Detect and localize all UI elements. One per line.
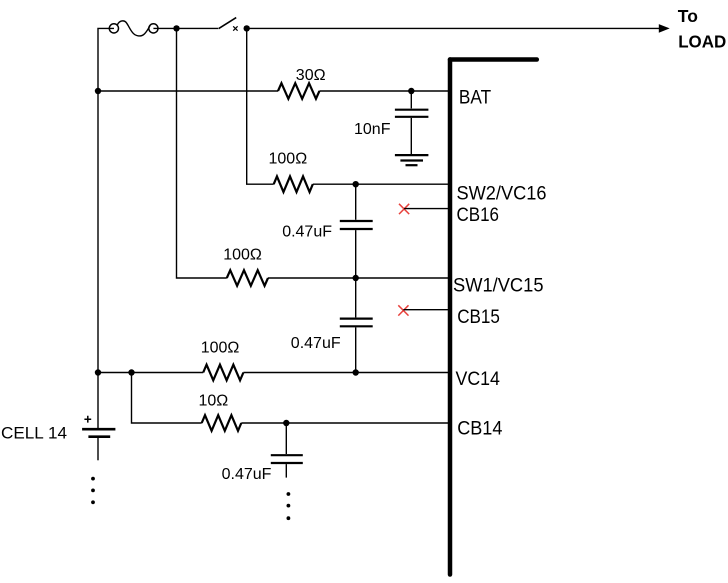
resistor 10ohm CB14 [202, 415, 242, 431]
svg-text:BAT: BAT [459, 88, 492, 109]
IC edge thick top bar [450, 57, 537, 62]
node VC14 cap tap [353, 369, 359, 375]
ground symbol [395, 154, 429, 156]
capacitor 10nF stem bottom [410, 118, 412, 154]
svg-text:100Ω: 100Ω [201, 340, 240, 357]
wire fuse to switch [153, 27, 218, 29]
svg-text:SW2/VC16: SW2/VC16 [457, 184, 547, 205]
wire VC14 row left [98, 372, 203, 374]
capacitor 0.47uF (CB14) stem top [285, 423, 287, 454]
wire SW2 row right [313, 183, 450, 185]
resistor 100ohm SW1 [227, 270, 268, 286]
capacitor 0.47uF (SW1-VC14) stem top [355, 278, 357, 317]
capacitor 0.47uF (SW2-SW1) plates [340, 221, 373, 229]
node 10nF tap [408, 88, 414, 94]
capacitor 0.47uF (SW1-VC14) stem bottom [355, 327, 357, 372]
node junction after switch [244, 25, 250, 31]
capacitor 0.47uF (SW2-SW1) stem top [355, 184, 357, 220]
battery stub below [97, 438, 99, 460]
capacitor 0.47uF (SW1-VC14) plates [340, 319, 373, 327]
wire VC14 branch down to CB14 row [132, 373, 202, 424]
node junction after fuse [173, 25, 179, 31]
svg-text:0.47uF: 0.47uF [291, 335, 341, 352]
IC edge thick vertical [448, 60, 453, 575]
wire CB15 [403, 309, 450, 311]
svg-text:30Ω: 30Ω [296, 67, 326, 84]
svg-text:LOAD: LOAD [678, 31, 726, 51]
svg-text:To: To [678, 6, 698, 26]
resistor 100ohm SW2 [274, 176, 313, 192]
wire fuse node down to SW1 row [177, 28, 227, 278]
node VC14 branch junction [128, 369, 134, 375]
node BAT bus junction [95, 88, 101, 94]
wire BAT row right [319, 90, 450, 92]
node SW2 cap tap [353, 181, 359, 187]
wire CB14 row right [241, 422, 450, 424]
resistor 100ohm VC14 [203, 365, 243, 381]
svg-text:10Ω: 10Ω [199, 393, 229, 410]
battery CELL 14 long plate [82, 428, 115, 431]
battery CELL 14 plus sign [84, 416, 91, 423]
arrowhead to load [659, 24, 670, 33]
wire BAT row left [98, 90, 278, 92]
red x CB15 [398, 305, 408, 315]
node VC14 bus junction [95, 369, 101, 375]
wire VC14 row right [243, 372, 450, 374]
svg-text:10nF: 10nF [354, 121, 391, 138]
wire to load arrow [247, 27, 661, 29]
wire CB16 [404, 208, 450, 210]
ellipsis dots below CB14 cap [287, 492, 291, 496]
capacitor 10nF plates [395, 110, 429, 117]
wire switch node down to SW2 row [247, 28, 274, 184]
svg-text:CB15: CB15 [457, 307, 500, 328]
capacitor 10nF stem top [410, 91, 412, 108]
svg-text:0.47uF: 0.47uF [222, 466, 272, 483]
svg-text:SW1/VC15: SW1/VC15 [453, 275, 544, 296]
fuse F1 circle left [109, 24, 118, 33]
wire top-left corner to fuse [98, 28, 114, 428]
node SW1 cap tap [353, 275, 359, 281]
svg-text:0.47uF: 0.47uF [282, 224, 332, 241]
svg-text:CB16: CB16 [457, 205, 500, 226]
resistor 30ohm [278, 83, 319, 99]
fuse F1 circle right [149, 24, 158, 33]
svg-text:VC14: VC14 [456, 369, 501, 390]
switch S1 blade [219, 18, 237, 29]
capacitor 0.47uF (SW2-SW1) stem bottom [355, 230, 357, 278]
switch S1 contact x [233, 26, 237, 30]
red x CB16 [399, 204, 409, 214]
ellipsis dots below battery [91, 477, 95, 481]
svg-text:100Ω: 100Ω [269, 151, 308, 168]
node CB14 cap tap [283, 420, 289, 426]
wire SW1 row right [268, 277, 450, 279]
svg-text:CB14: CB14 [457, 419, 503, 440]
battery CELL 14 short plate [88, 435, 110, 438]
capacitor 0.47uF (CB14) stem bottom [285, 464, 287, 478]
svg-text:100Ω: 100Ω [223, 247, 262, 264]
capacitor 0.47uF (CB14) plates [271, 455, 303, 463]
svg-text:CELL 14: CELL 14 [1, 425, 67, 443]
fuse F1 wavy element [117, 21, 150, 36]
